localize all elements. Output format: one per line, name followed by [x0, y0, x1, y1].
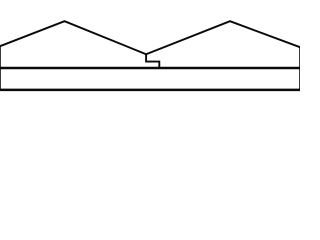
right edge vertical (gable end down to eaves) — [299, 47, 301, 68]
left edge vertical (eaves band closure) — [0, 68, 1, 90]
right edge vertical (eaves band closure) — [299, 68, 301, 90]
right gable roof outline (ascent to apex2, descent to right edge) — [146, 21, 300, 54]
fascia bottom line (horizontal line 2) — [0, 89, 300, 92]
left edge vertical (gable end down to eaves) — [0, 46, 1, 68]
left gable roof outline (ascent to apex1, descent to valley V1) — [0, 21, 146, 54]
eaves top line (horizontal line 1) — [0, 67, 300, 70]
valley step (drop, shelf, drop to eaves line) — [146, 54, 159, 69]
